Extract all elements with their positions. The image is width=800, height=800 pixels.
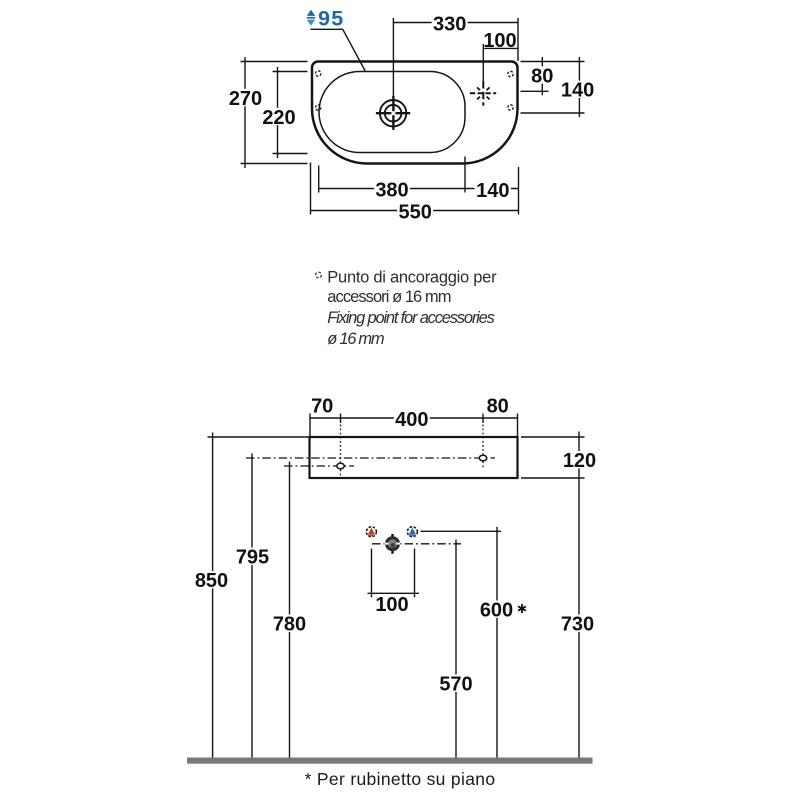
- mixer tap hole (dark circle): [391, 534, 393, 537]
- dim 330 extension left (drain centerline up): [392, 18, 394, 96]
- dim line 140 right: [578, 57, 580, 117]
- dim line 380/140 bottom: [319, 188, 519, 190]
- label 80 right: [530, 66, 555, 83]
- left hole vertical centerline (dotted): [340, 425, 342, 477]
- left hole centerline (dash-dot): [284, 465, 354, 467]
- svg-text:80: 80: [487, 395, 509, 417]
- dim line 795: [251, 454, 253, 758]
- basin front rectangle: [310, 437, 518, 478]
- label 270: [228, 89, 264, 106]
- svg-text:ø 16 mm: ø 16 mm: [327, 330, 384, 348]
- drain outer circle: [380, 100, 406, 126]
- hot water symbol (red triangle): [366, 527, 376, 537]
- svg-text:330: 330: [433, 13, 466, 35]
- svg-text:95: 95: [318, 7, 344, 31]
- fixing point mark bottom-right: [508, 105, 513, 110]
- right dims extension 140 level: [521, 112, 585, 114]
- svg-text:100: 100: [483, 30, 516, 52]
- svg-text:550: 550: [399, 201, 432, 223]
- label 570: [438, 675, 474, 692]
- basin inner bowl: [319, 72, 465, 153]
- svg-text:380: 380: [375, 179, 408, 201]
- faucet cross corner tick SE: [487, 97, 490, 100]
- fixing point mark top-left: [316, 71, 321, 76]
- label 730: [560, 615, 596, 632]
- asterisk after 600: [518, 604, 526, 613]
- svg-text:80: 80: [531, 65, 553, 87]
- dim line 120 + 730 (shared vertical): [578, 432, 580, 758]
- fixing point mark bottom-left: [316, 105, 321, 110]
- svg-text:795: 795: [236, 547, 269, 569]
- label 380: [374, 180, 410, 197]
- svg-text:140: 140: [561, 80, 594, 102]
- dim 220 extension top: [273, 71, 308, 73]
- faucet cross corner tick SW: [477, 97, 480, 100]
- dim 220 extension bottom: [273, 153, 308, 155]
- dim line 330: [393, 22, 518, 24]
- dim line 70/400/80: [310, 417, 518, 419]
- label 550: [397, 202, 433, 219]
- left hole tick at dim line: [340, 414, 342, 424]
- svg-text:850: 850: [195, 570, 228, 592]
- label 780: [272, 615, 308, 632]
- top dim extensions: rect left edge up: [309, 414, 311, 438]
- svg-text:120: 120: [563, 450, 596, 472]
- dim 550 extension right: [518, 167, 520, 215]
- dim 270 extension top: [241, 61, 308, 63]
- dim line 80 right: [541, 57, 543, 95]
- faucet position cross vertical: [482, 81, 484, 106]
- svg-text:100: 100: [375, 594, 408, 616]
- basin outer outline: [312, 62, 518, 164]
- dim 100 extension right (cold down): [414, 549, 416, 598]
- svg-text:accessori ø 16 mm: accessori ø 16 mm: [327, 288, 450, 306]
- dim 95 leader: [311, 29, 366, 71]
- svg-text:600: 600: [480, 600, 513, 622]
- faucet cross corner tick NW: [477, 87, 480, 90]
- label 795: [235, 548, 271, 565]
- right dims extension faucet level: [521, 90, 549, 92]
- label 220: [261, 108, 297, 125]
- svg-text:70: 70: [311, 395, 333, 417]
- label 140 right: [559, 81, 595, 98]
- label 120: [562, 451, 598, 468]
- drain crosshair vertical: [392, 96, 394, 130]
- right hole tick at dim line: [482, 414, 484, 424]
- dim 120 extension bottom: [521, 477, 585, 479]
- dim 95 arrow icon: [307, 10, 315, 16]
- svg-text:730: 730: [561, 614, 594, 636]
- svg-text:220: 220: [262, 107, 295, 129]
- note fixing point symbol: [316, 272, 322, 278]
- dim 330/100 extension right (basin right edge up): [517, 18, 519, 61]
- dim line 100: [368, 592, 420, 594]
- dim 550 extension left: [310, 163, 312, 215]
- label 400: [394, 410, 430, 427]
- drain crosshair horizontal: [376, 112, 410, 114]
- dim 120 extension top: [521, 436, 585, 438]
- faucet cross corner tick NE: [487, 87, 490, 90]
- dim line 220: [277, 67, 279, 158]
- dim 270 extension bottom: [241, 163, 308, 165]
- svg-text:400: 400: [395, 409, 428, 431]
- dim 380 extension right (bowl right): [464, 157, 466, 193]
- label 850: [194, 571, 230, 588]
- svg-text:140: 140: [476, 180, 509, 202]
- floor bar: [187, 758, 593, 764]
- label 140 bottom: [475, 181, 511, 198]
- fixing point mark top-right: [508, 71, 513, 76]
- svg-text:* Per rubinetto su piano: * Per rubinetto su piano: [305, 769, 496, 789]
- dim 100 extension (faucet centerline up): [482, 44, 484, 81]
- label 330: [432, 14, 468, 31]
- dim line 100 top: [483, 47, 518, 49]
- right mounting hole: [479, 455, 486, 461]
- dim 850 extension (rect top leftwards): [208, 436, 310, 438]
- right hole vertical centerline (dotted): [482, 425, 484, 469]
- svg-text:270: 270: [229, 88, 262, 110]
- svg-text:780: 780: [273, 614, 306, 636]
- dim 600 extension (cold level rightwards): [421, 530, 502, 532]
- svg-text:570: 570: [439, 674, 472, 696]
- mounting holes centerline (dash-dot): [246, 457, 495, 459]
- faucet position cross horizontal: [470, 92, 496, 94]
- dim line 270: [244, 57, 246, 168]
- drain inner circle: [385, 105, 402, 122]
- dim line 600: [496, 527, 498, 758]
- svg-text:Punto di ancoraggio per: Punto di ancoraggio per: [327, 268, 497, 286]
- right dims 80/140 extension top: [521, 61, 585, 63]
- svg-text:Fixing point for accessories: Fixing point for accessories: [327, 309, 494, 327]
- label 600*: [479, 601, 528, 618]
- cold water symbol (blue triangle): [407, 527, 417, 537]
- tap centerline (dash-dot through mixer): [372, 543, 461, 545]
- dim 100 extension left (hot down): [371, 549, 373, 598]
- dim line 850: [212, 433, 214, 758]
- dim 380 extension left (bowl left): [318, 166, 320, 193]
- top dim extensions: rect right edge up: [517, 414, 519, 438]
- left mounting hole: [337, 463, 344, 469]
- dim line 780: [289, 462, 291, 758]
- dim line 570: [455, 540, 457, 758]
- dim line 550: [311, 210, 519, 212]
